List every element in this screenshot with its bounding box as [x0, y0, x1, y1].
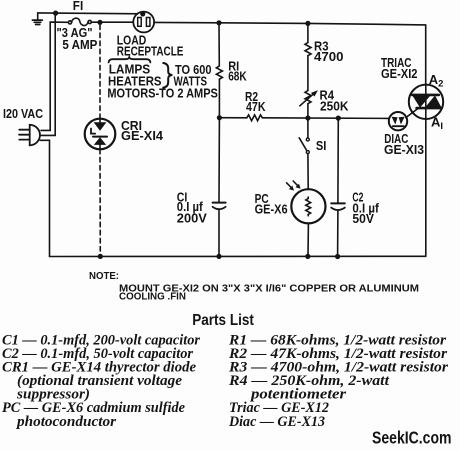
svg-text:GE-XI3: GE-XI3: [384, 142, 424, 157]
svg-text:4700: 4700: [314, 49, 344, 64]
potentiometer R4: [305, 91, 311, 104]
photocell PC: [291, 189, 325, 223]
svg-text:47K: 47K: [246, 99, 266, 114]
wire S1 to PC: [307, 154, 309, 190]
svg-text:COOLING .FIN: COOLING .FIN: [119, 292, 186, 303]
svg-text:5 AMP: 5 AMP: [62, 37, 97, 52]
parts list right column: [228, 333, 448, 430]
svg-text:FI: FI: [73, 0, 83, 13]
wire PC to bottom rail: [307, 223, 309, 256]
wire plug bottom to bottom rail: [40, 140, 426, 256]
svg-text:200V: 200V: [177, 211, 207, 226]
thyrector CR1: [85, 119, 116, 150]
fuse F1: [68, 18, 91, 25]
wire C2 top lead: [337, 118, 339, 203]
wire S1 top lead: [307, 118, 309, 138]
wire dashed lower (CR1 to bottom rail): [99, 149, 101, 254]
wire plug neutral up to top rail: [41, 13, 55, 135]
ground: [32, 13, 42, 25]
node C1 bottom: [216, 254, 221, 259]
wire mid rail with R2: [219, 117, 246, 119]
wire mid rail right of R2: [262, 117, 389, 120]
wire fuse to receptacle: [91, 21, 133, 23]
wire C2 bottom lead: [337, 211, 339, 257]
node R3 top: [305, 21, 310, 26]
svg-text:GE-X6: GE-X6: [255, 202, 288, 217]
load receptacle: [133, 12, 154, 33]
svg-text:SI: SI: [316, 138, 327, 153]
wire C1 bottom lead: [218, 210, 220, 257]
parts list left column: [2, 333, 200, 430]
node receptacle top: [140, 11, 145, 16]
wire R4 bottom lead: [307, 104, 309, 118]
right brace: [163, 63, 172, 88]
svg-text:GE-XI2: GE-XI2: [381, 66, 418, 81]
PC light arrows: [287, 181, 301, 191]
svg-text:NOTE:: NOTE:: [89, 271, 119, 282]
svg-text:WATTS: WATTS: [174, 73, 208, 88]
svg-text:I20 VAC: I20 VAC: [3, 106, 44, 121]
svg-text:68K: 68K: [228, 69, 247, 84]
capacitor C1: [213, 203, 226, 210]
wire top-left rail (ground to receptacle top): [38, 12, 143, 15]
wire R1 top lead: [218, 23, 220, 66]
wire diac gate to triac: [406, 109, 418, 118]
svg-text:Diac — GE-X13: Diac — GE-X13: [228, 414, 325, 430]
node mid rail C2: [336, 116, 341, 121]
wire C1 top lead: [218, 118, 220, 203]
diac GE-X13: [389, 112, 407, 130]
svg-text:SeekIC.com: SeekIC.com: [372, 428, 452, 448]
resistor R1: [216, 66, 222, 79]
wire triac through and down to bottom rail: [425, 85, 427, 256]
plug 120 VAC: [19, 125, 40, 146]
node dashed-line tap on fuse wire: [97, 20, 102, 25]
triac GE-X12: [409, 85, 443, 119]
node PC bottom: [305, 254, 310, 259]
wire R3-R4 lead: [307, 56, 309, 91]
node junction top rail: [53, 11, 58, 16]
node mid rail R4: [305, 115, 310, 120]
svg-text:50V: 50V: [352, 211, 374, 226]
wire plug hot up to fuse line: [41, 22, 68, 130]
wire R1 bottom lead: [218, 79, 220, 118]
node mid rail left: [217, 115, 222, 120]
svg-text:Parts List: Parts List: [192, 312, 254, 329]
switch S1: [299, 138, 309, 154]
resistor R3: [305, 43, 311, 56]
capacitor C2: [331, 203, 345, 210]
wire R3 top lead: [307, 23, 309, 42]
svg-text:RECEPTACLE: RECEPTACLE: [117, 43, 184, 58]
node R1 top: [216, 20, 221, 25]
node dashed bottom: [98, 254, 103, 259]
svg-text:250K: 250K: [320, 99, 349, 114]
resistor R2: [247, 115, 263, 121]
svg-text:photoconductor: photoconductor: [15, 414, 116, 430]
R4 wiper arrow: [300, 90, 318, 106]
wire right side down to triac: [425, 25, 427, 85]
wire main top rail (receptacle to right corner): [154, 22, 426, 25]
wire dashed upper (fuse tap to CR1): [99, 25, 101, 119]
node C2 bottom: [335, 254, 340, 259]
svg-text:GE-XI4: GE-XI4: [121, 128, 164, 143]
overbrace above LAMPS: [109, 57, 151, 62]
